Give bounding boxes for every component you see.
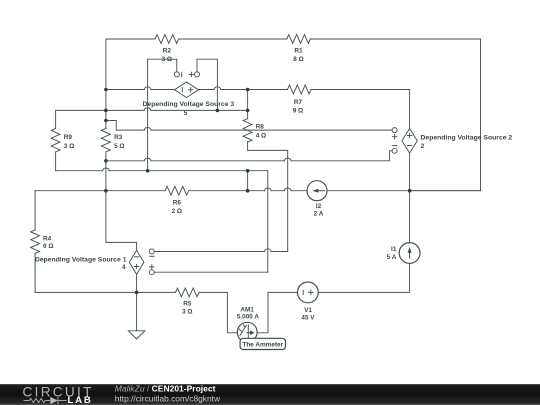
svg-text:3 Ω: 3 Ω xyxy=(64,143,74,150)
svg-text:5.000 A: 5.000 A xyxy=(237,314,260,321)
dependent source 1 diamond xyxy=(129,250,144,274)
source 2 control minus sign xyxy=(392,145,396,147)
svg-text:R8: R8 xyxy=(256,124,265,131)
source 3 control circle plus xyxy=(195,72,200,77)
current source I2 xyxy=(307,181,327,201)
source 1 plus xyxy=(134,264,138,268)
svg-text:5: 5 xyxy=(184,110,188,117)
svg-text:R4: R4 xyxy=(43,236,52,243)
hop on H6 at x=105.9 xyxy=(103,168,110,171)
svg-text:Depending Voltage Source 2: Depending Voltage Source 2 xyxy=(421,135,513,142)
svg-text:4 Ω: 4 Ω xyxy=(256,132,266,139)
source 2 minus xyxy=(407,145,411,147)
svg-text:5 A: 5 A xyxy=(387,254,397,261)
hop on H5 at x=267.8 xyxy=(264,188,271,191)
source 3 minus xyxy=(181,88,183,92)
resistor R9 xyxy=(51,128,60,152)
source 3 control minus sign xyxy=(181,72,183,76)
svg-text:R7: R7 xyxy=(294,99,303,106)
source 2 plus xyxy=(407,133,411,137)
dependent source 3 diamond xyxy=(175,82,199,98)
I2 arrow xyxy=(317,190,325,192)
wire source1 ctrl top y=251.5 xyxy=(154,251,287,253)
source 2 control circle plus xyxy=(392,128,397,133)
footer bar xyxy=(0,384,540,405)
svg-text:Depending Voltage Source 1: Depending Voltage Source 1 xyxy=(35,256,127,263)
ammeter tooltip box xyxy=(240,338,285,349)
svg-text:R9: R9 xyxy=(64,134,73,141)
resistor R8 xyxy=(243,119,252,143)
AM1 needle and meter xyxy=(239,325,249,339)
resistor R2 xyxy=(155,35,179,44)
wire V248 R8 top x=247.6 xyxy=(248,90,288,252)
svg-text:2: 2 xyxy=(421,143,425,150)
resistor R9 branch xyxy=(55,110,57,170)
wire I1 top to dot xyxy=(409,191,411,243)
svg-text:MalikZu / CEN201-Project: MalikZu / CEN201-Project xyxy=(115,384,216,394)
svg-text:V1: V1 xyxy=(304,307,312,314)
V1 minus xyxy=(302,290,304,294)
hop on H5 at x=287.7 xyxy=(284,188,291,191)
svg-text:The Ammeter: The Ammeter xyxy=(242,342,283,349)
svg-text:2 Ω: 2 Ω xyxy=(172,208,182,215)
source 1 control minus sign xyxy=(150,255,154,257)
resistor R4 xyxy=(31,230,40,254)
svg-text:R2: R2 xyxy=(163,48,172,55)
wire V248 stub xyxy=(247,171,249,191)
hop on H2 at x=217.4 xyxy=(214,87,221,90)
wire R3 top jog xyxy=(106,121,116,131)
wire AM1 to V1 xyxy=(257,292,297,332)
source 1 control plus sign xyxy=(150,265,154,269)
source 3 plus xyxy=(188,88,193,93)
svg-text:R6: R6 xyxy=(173,200,182,207)
current source I1 xyxy=(399,243,420,264)
resistor R1 xyxy=(287,35,311,44)
source 1 control circle plus xyxy=(149,270,154,275)
hop on H2 at x=147.6 xyxy=(144,87,151,90)
wire H5 y=190.7 xyxy=(35,190,480,192)
wire V480 right outer xyxy=(410,39,481,191)
hop on H4 at x=147.6 xyxy=(144,158,151,161)
svg-text:3 Ω: 3 Ω xyxy=(182,309,192,316)
svg-text:6 Ω: 6 Ω xyxy=(43,243,53,250)
ground xyxy=(128,331,145,339)
svg-text:http://circuitlab.com/c8gkntw: http://circuitlab.com/c8gkntw xyxy=(115,394,221,404)
svg-text:3 Ω: 3 Ω xyxy=(162,56,172,63)
svg-text:9 Ω: 9 Ω xyxy=(293,107,303,114)
voltage source V1 xyxy=(298,282,319,303)
wire H2 diamond row y=89.5 xyxy=(106,89,410,91)
svg-text:4: 4 xyxy=(122,264,126,271)
source 1 control circle minus xyxy=(149,249,154,254)
svg-text:I2: I2 xyxy=(316,203,322,210)
source 3 control loop right xyxy=(197,59,217,110)
svg-text:2 A: 2 A xyxy=(314,211,324,218)
resistor R5 xyxy=(176,288,200,297)
wire Vc3L x=147.6 xyxy=(147,59,149,171)
svg-text:R5: R5 xyxy=(183,301,192,308)
wire Hc control y=130.1 to source2 plus xyxy=(116,129,392,131)
resistor R6 xyxy=(165,186,189,195)
hop on Hc at x=147.6 xyxy=(144,127,151,130)
wire H4 y=160.8 source2 minus return xyxy=(106,151,392,161)
wire VR4 branch x=35.1 xyxy=(34,191,36,293)
V1 plus xyxy=(309,290,313,294)
wire VL left outer x=105.9 xyxy=(106,39,137,250)
wire H3 y=110.4 xyxy=(56,109,248,111)
svg-text:Depending Voltage Source 3: Depending Voltage Source 3 xyxy=(143,101,235,108)
wire V1 to corner xyxy=(318,263,409,292)
svg-text:LAB: LAB xyxy=(68,395,93,405)
svg-text:8 Ω: 8 Ω xyxy=(293,56,303,63)
ammeter AM1 xyxy=(237,322,257,342)
svg-text:R3: R3 xyxy=(114,134,123,141)
I1 arrow xyxy=(409,251,411,259)
hop on H4 at x=287.7 xyxy=(284,158,291,161)
svg-text:I1: I1 xyxy=(391,246,397,253)
resistor R7 xyxy=(288,85,312,94)
resistor R3 xyxy=(102,128,111,152)
hop on ctrl top at x=267.8 xyxy=(264,249,271,252)
source 3 control loop left xyxy=(148,59,177,72)
svg-text:5 Ω: 5 Ω xyxy=(114,143,124,150)
svg-text:45 V: 45 V xyxy=(301,315,315,322)
dependent source 2 diamond xyxy=(402,129,417,154)
source 2 control circle minus xyxy=(392,148,397,153)
wire VR x=409.6 source2 xyxy=(409,90,411,191)
svg-text:R1: R1 xyxy=(294,48,303,55)
wire H6 y=170.7 xyxy=(56,171,268,273)
source 1 minus xyxy=(134,256,138,258)
logo zigzag and diode xyxy=(24,397,67,404)
wire H1 top loop y=39 xyxy=(106,38,481,40)
wire H7 bottom y=292.4 xyxy=(35,292,237,332)
source 2 control plus sign xyxy=(392,135,396,139)
source 3 control plus sign xyxy=(189,72,193,76)
wire source1 ctrl bottom y=272.2 xyxy=(154,271,267,273)
source 3 control circle minus xyxy=(174,72,179,77)
hop on H3 at x=147.6 xyxy=(144,108,151,111)
wire source1 stem down xyxy=(136,274,138,331)
